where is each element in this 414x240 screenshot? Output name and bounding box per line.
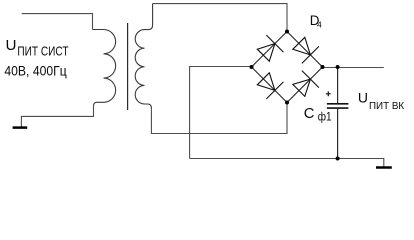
node dot capacitor bottom — [336, 157, 340, 161]
ground GND2 bottom-right — [376, 166, 392, 169]
capacitor C1 branch wire top — [337, 67, 339, 103]
capacitor C1 plates — [327, 103, 349, 105]
svg-text:U: U — [358, 89, 368, 105]
bridge diamond edges — [252, 32, 323, 103]
wire bridge right corner to output — [323, 67, 384, 69]
node dot bridge right — [321, 65, 325, 69]
wire input top-left — [22, 14, 93, 30]
svg-text:40В, 400Гц: 40В, 400Гц — [4, 62, 66, 78]
svg-text:U: U — [6, 37, 17, 54]
svg-text:ПИТ ВК: ПИТ ВК — [369, 101, 404, 112]
diode D1 left-to-top — [257, 35, 283, 61]
diode D3 left-to-bottom — [257, 73, 283, 99]
transformer core — [127, 23, 129, 110]
ground GND1 bottom-left — [13, 126, 28, 129]
svg-text:ф1: ф1 — [318, 110, 332, 124]
diode D4 bottom-to-right — [293, 71, 319, 97]
transformer secondary winding T1b — [135, 4, 152, 108]
node dot bridge top — [285, 30, 289, 34]
node dot bridge bottom — [285, 101, 289, 105]
transformer primary winding T1a — [93, 30, 116, 106]
plus sign polarity mark — [326, 91, 331, 96]
wire primary bottom lead — [21, 105, 93, 127]
diode D2 top-to-right — [293, 37, 319, 63]
wire secondary top to bridge top — [153, 4, 287, 32]
wire secondary bottom to bridge bottom — [151, 103, 287, 134]
svg-text:C: C — [304, 106, 315, 122]
node dot bridge left — [250, 65, 254, 69]
wire bridge left corner to ground rail — [190, 67, 252, 159]
node dot capacitor top — [336, 65, 340, 69]
wire ground rail bottom — [190, 159, 384, 167]
svg-text:ПИТ СИСТ: ПИТ СИСТ — [17, 44, 68, 59]
capacitor C1 branch wire bottom — [337, 109, 339, 159]
svg-text:4: 4 — [317, 20, 322, 30]
